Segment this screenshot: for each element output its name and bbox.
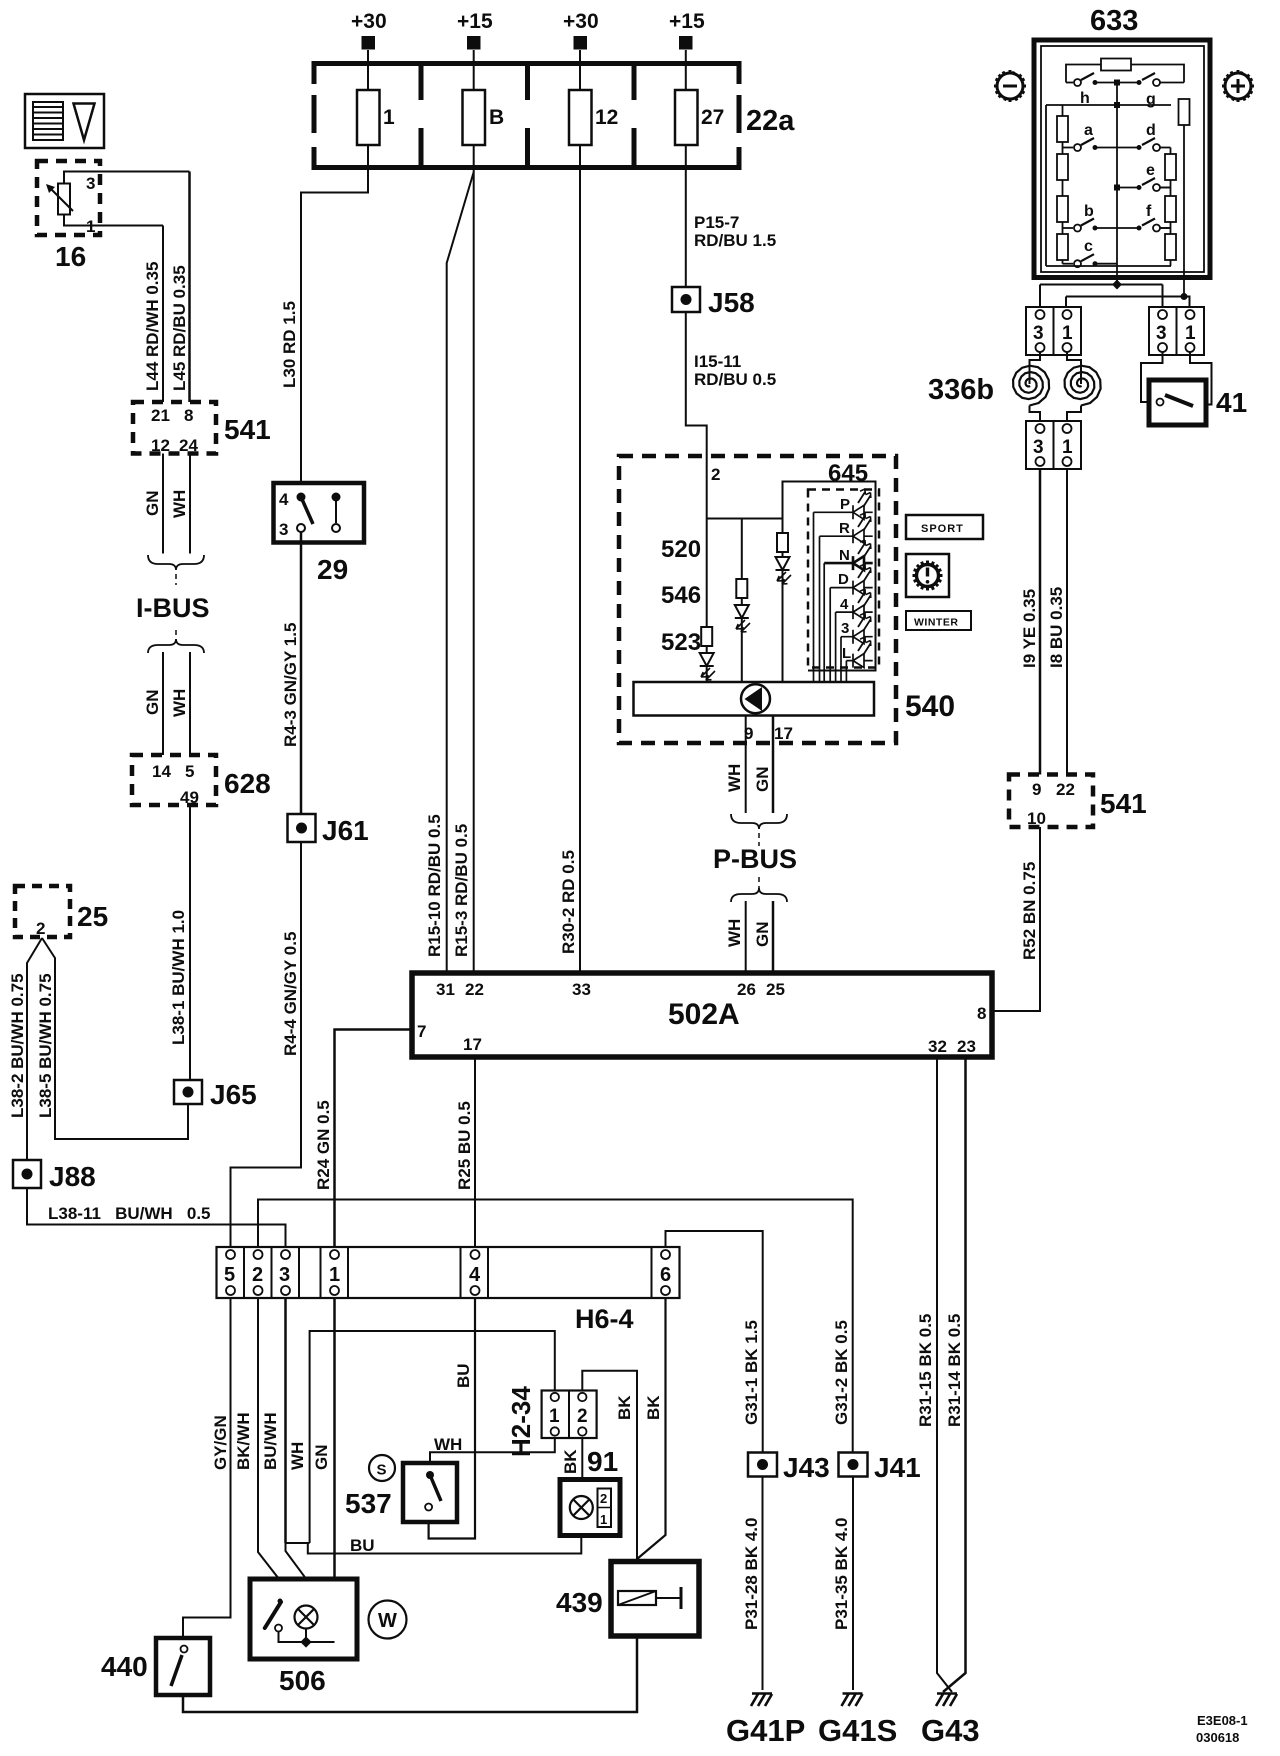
switch 440 — [156, 1638, 210, 1695]
svg-text:5: 5 — [224, 1264, 235, 1286]
svg-text:17: 17 — [774, 724, 793, 743]
bottom link wire 440-439 — [183, 1636, 637, 1712]
svg-text:J58: J58 — [708, 287, 755, 318]
svg-text:3: 3 — [279, 1264, 290, 1286]
svg-text:c: c — [1084, 238, 1093, 255]
svg-text:26: 26 — [737, 980, 756, 999]
svg-text:541: 541 — [224, 414, 271, 445]
wire WH from H2-34 pin1 down — [310, 1331, 555, 1543]
P-BUS brace top — [731, 814, 787, 829]
svg-text:+30: +30 — [563, 10, 599, 33]
wire R52 BN 0.75 to 502A pin8 — [992, 827, 1040, 1011]
svg-text:R52 BN 0.75: R52 BN 0.75 — [1020, 862, 1039, 960]
fuse 12 — [569, 90, 592, 145]
MORE SECTIONS INSERTED BELOW — [928, 5, 1254, 1011]
svg-text:WH: WH — [170, 490, 189, 518]
svg-text:P31-28 BK 4.0: P31-28 BK 4.0 — [742, 1518, 761, 1630]
left chain resistors — [1062, 105, 1064, 116]
svg-text:9: 9 — [1032, 780, 1041, 799]
switch e — [1117, 187, 1139, 189]
svg-text:7: 7 — [417, 1022, 426, 1041]
svg-text:1: 1 — [1062, 437, 1073, 458]
wire from 16 pin1 to L44 — [64, 215, 163, 226]
W circle — [369, 1601, 407, 1639]
fuse B — [463, 90, 486, 145]
svg-text:17: 17 — [463, 1035, 482, 1054]
svg-text:1: 1 — [600, 1512, 607, 1527]
ground G41S — [842, 1694, 863, 1707]
P-BUS brace bottom — [758, 877, 760, 889]
svg-text:f: f — [1146, 203, 1152, 220]
svg-text:J88: J88 — [49, 1161, 96, 1192]
display housing solid box — [783, 482, 876, 671]
svg-text:GN: GN — [143, 690, 162, 716]
connector 541 left (dashed) — [133, 402, 216, 454]
LED chain 546: led — [735, 598, 750, 682]
svg-text:I9 YE 0.35: I9 YE 0.35 — [1020, 589, 1039, 668]
svg-text:e: e — [1146, 162, 1155, 179]
relay 439 — [611, 1562, 699, 1637]
wire P31-35 BK 4.0 J41 to G41S — [852, 1477, 854, 1691]
svg-text:S: S — [377, 1462, 387, 1479]
svg-text:523: 523 — [661, 629, 701, 656]
svg-text:41: 41 — [1216, 387, 1247, 418]
junction J41 — [839, 1453, 868, 1477]
svg-text:R30-2 RD 0.5: R30-2 RD 0.5 — [559, 850, 578, 954]
svg-text:4: 4 — [469, 1264, 481, 1286]
svg-text:1: 1 — [1062, 323, 1073, 344]
selector illumination unit 540 (dashed box) — [619, 456, 896, 743]
svg-text:537: 537 — [345, 1488, 392, 1519]
svg-text:BK: BK — [561, 1449, 580, 1474]
internal feed rail — [707, 518, 783, 520]
S circle — [369, 1455, 395, 1481]
svg-text:R4-3 GN/GY 1.5: R4-3 GN/GY 1.5 — [281, 623, 300, 747]
wire BK/WH H6-4 pin2 to 506 switch — [258, 1298, 279, 1602]
svg-text:25: 25 — [77, 901, 108, 932]
connector 541 right (dashed) — [1009, 775, 1093, 828]
svg-text:BU/WH: BU/WH — [261, 1412, 280, 1470]
svg-text:628: 628 — [224, 768, 271, 799]
LED chain 546: resistor — [741, 519, 743, 580]
svg-text:L: L — [842, 645, 851, 662]
panel lamp unit 506 — [250, 1579, 357, 1659]
svg-text:3: 3 — [279, 520, 288, 539]
fuse 1 — [357, 90, 380, 145]
svg-text:502A: 502A — [668, 998, 740, 1031]
wire BK H2-34 pin2 to 91 — [581, 1438, 583, 1480]
wire from 16 pin3 to L45 — [64, 172, 190, 184]
wire L45 RD/BU 0.35 — [188, 172, 191, 403]
svg-text:J41: J41 — [874, 1452, 921, 1483]
svg-text:22a: 22a — [746, 105, 795, 137]
svg-text:4: 4 — [279, 490, 289, 509]
wire GN from 540 pin17 — [772, 716, 775, 814]
wire GN H6-4 pin1 to 506 — [333, 1298, 336, 1642]
lamp driver bar in 540 — [634, 682, 875, 716]
svg-text:R31-14 BK 0.5: R31-14 BK 0.5 — [945, 1314, 964, 1427]
wire R15-10 fuseB diagonal down to 502A pin31 — [447, 172, 474, 973]
svg-text:R24 GN 0.5: R24 GN 0.5 — [314, 1100, 333, 1190]
svg-text:GN: GN — [753, 767, 772, 793]
switch d — [1117, 147, 1139, 149]
svg-text:12: 12 — [595, 106, 618, 129]
svg-text:520: 520 — [661, 536, 701, 563]
sensor 16 (dashed box with rheostat) — [37, 161, 100, 235]
svg-text:GN: GN — [753, 922, 772, 948]
fuse 27 — [675, 90, 698, 145]
svg-text:L38-11 BU/WH 0.5: L38-11 BU/WH 0.5 — [48, 1204, 211, 1223]
junction J61 — [288, 814, 316, 842]
svg-text:b: b — [1084, 203, 1094, 220]
svg-text:6: 6 — [660, 1264, 671, 1286]
plus gear icon — [1222, 70, 1254, 102]
svg-text:3: 3 — [841, 620, 849, 637]
svg-text:R4-4 GN/GY 0.5: R4-4 GN/GY 0.5 — [281, 932, 300, 1056]
wire I15-11 J58 to 540 pin2 — [686, 312, 707, 519]
inner resistor network box — [1046, 105, 1171, 266]
connector H2-34 — [542, 1391, 597, 1439]
svg-text:I8 BU 0.35: I8 BU 0.35 — [1047, 587, 1066, 668]
633 internals — [1046, 59, 1190, 297]
wire P31-28 BK 4.0 J43 to G41P — [762, 1477, 764, 1691]
svg-text:8: 8 — [184, 406, 193, 425]
junction J65 — [174, 1080, 202, 1104]
wires 633 to connectors — [1040, 278, 1163, 308]
svg-text:G41P: G41P — [726, 1713, 805, 1748]
junction J58 — [672, 287, 700, 312]
svg-text:L38-1 BU/WH 1.0: L38-1 BU/WH 1.0 — [169, 910, 188, 1045]
svg-text:H6-4: H6-4 — [575, 1304, 634, 1334]
light switch unit 633 outer box — [1034, 40, 1210, 278]
svg-text:1: 1 — [1185, 323, 1196, 344]
wire GN from 541-12 — [162, 454, 164, 554]
wire BK H6-4 pin6 to 439 — [637, 1298, 666, 1562]
svg-text:W: W — [378, 1610, 397, 1632]
wire BU bus to 91 lamp — [308, 1519, 582, 1554]
switch 29 — [274, 483, 365, 543]
svg-text:336b: 336b — [928, 374, 994, 406]
wire L30 RD 1.5 fuse1 to switch 29 — [301, 168, 368, 484]
wire R4-3 GN/GY 1.5 switch29 to J61 — [300, 532, 303, 814]
wire GY/GN H6-4 pin5 to 440 — [183, 1298, 231, 1638]
wire R24 GN 0.5 502A pin7 to H6-4 pin1 — [335, 1030, 413, 1248]
wire R31-14 BK 0.5 502A pin23 to G43 — [943, 1057, 966, 1692]
svg-text:R31-15 BK 0.5: R31-15 BK 0.5 — [916, 1314, 935, 1427]
svg-text:1: 1 — [549, 1406, 560, 1427]
svg-text:22: 22 — [465, 980, 484, 999]
wire BK H2-34 pin2 to 439 — [582, 1371, 637, 1562]
svg-text:32: 32 — [928, 1037, 947, 1056]
svg-text:8: 8 — [977, 1004, 986, 1023]
svg-text:440: 440 — [101, 1651, 148, 1682]
svg-text:1: 1 — [329, 1264, 340, 1286]
mirror switch 537 — [403, 1463, 457, 1522]
svg-text:RD/BU 1.5: RD/BU 1.5 — [694, 231, 776, 250]
svg-text:29: 29 — [317, 554, 348, 585]
svg-text:R15-3 RD/BU 0.5: R15-3 RD/BU 0.5 — [452, 824, 471, 957]
svg-text:G41S: G41S — [818, 1713, 897, 1748]
switch g — [1137, 80, 1142, 85]
svg-text:49: 49 — [180, 788, 199, 807]
svg-text:WH: WH — [434, 1435, 462, 1454]
junction J88 — [13, 1160, 41, 1188]
svg-text:E3E08-1: E3E08-1 — [1197, 1713, 1248, 1728]
svg-text:GN: GN — [143, 491, 162, 517]
svg-text:BK/WH: BK/WH — [234, 1412, 253, 1470]
svg-text:J43: J43 — [783, 1452, 830, 1483]
svg-text:+15: +15 — [669, 10, 705, 33]
svg-text:3: 3 — [1156, 323, 1167, 344]
connector pair 3/1 upper right — [1149, 307, 1204, 355]
minus gear icon — [994, 70, 1026, 102]
svg-text:21: 21 — [151, 406, 170, 425]
I-BUS brace bottom — [175, 630, 177, 641]
connector 25 (dashed) — [15, 886, 70, 937]
wire L38-11 BU/WH 0.5 from J88 to H6-4 pin3 — [27, 1188, 286, 1247]
svg-text:BK: BK — [615, 1395, 634, 1420]
svg-text:2: 2 — [600, 1491, 607, 1506]
svg-text:R15-10 RD/BU 0.5: R15-10 RD/BU 0.5 — [425, 814, 444, 957]
svg-text:a: a — [1084, 122, 1093, 139]
svg-text:P: P — [840, 496, 850, 513]
svg-text:I-BUS: I-BUS — [136, 593, 210, 623]
svg-text:GY/GN: GY/GN — [211, 1415, 230, 1470]
svg-text:1: 1 — [383, 106, 395, 129]
top rail with resistor — [1066, 65, 1101, 83]
svg-text:030618: 030618 — [1196, 1730, 1239, 1745]
svg-text:10: 10 — [1027, 809, 1046, 828]
svg-text:2: 2 — [252, 1264, 263, 1286]
svg-text:B: B — [489, 106, 504, 129]
svg-text:d: d — [1146, 122, 1156, 139]
svg-text:P-BUS: P-BUS — [713, 844, 797, 874]
svg-text:31: 31 — [436, 980, 455, 999]
wire from J65 to 25 pin2 — [42, 938, 188, 1139]
display 645 dashed box — [808, 490, 879, 668]
wire I8 BU 0.35 — [1066, 469, 1068, 775]
switch h — [1066, 82, 1073, 84]
svg-text:R25 BU 0.5: R25 BU 0.5 — [455, 1101, 474, 1190]
gear LEDs P R N D 4 3 L — [814, 489, 873, 682]
wire H6-4 pin2 top to J41 — [258, 1200, 853, 1453]
svg-text:33: 33 — [572, 980, 591, 999]
svg-text:WH: WH — [725, 764, 744, 792]
wire R31-15 BK 0.5 502A pin32 to G43 — [937, 1057, 952, 1692]
svg-text:GN: GN — [312, 1445, 331, 1471]
svg-text:P15-7: P15-7 — [694, 213, 739, 232]
coil 336b right (spiral) — [1065, 352, 1101, 421]
svg-text:SPORT: SPORT — [921, 523, 964, 535]
svg-text:H2-34: H2-34 — [506, 1386, 536, 1457]
wire WH to 502A pin26 — [745, 901, 747, 973]
svg-text:506: 506 — [279, 1665, 326, 1696]
svg-text:2: 2 — [577, 1406, 588, 1427]
svg-text:J61: J61 — [322, 815, 369, 846]
wire GN to 628 — [162, 652, 164, 755]
svg-text:P31-35 BK 4.0: P31-35 BK 4.0 — [832, 1518, 851, 1630]
svg-text:546: 546 — [661, 582, 701, 609]
svg-text:G31-2 BK 0.5: G31-2 BK 0.5 — [832, 1320, 851, 1425]
svg-text:J65: J65 — [210, 1079, 257, 1110]
svg-text:L38-5 BU/WH 0.75: L38-5 BU/WH 0.75 — [36, 973, 55, 1118]
SPORT indicator box — [906, 515, 983, 539]
I-BUS brace top — [148, 555, 204, 570]
svg-text:23: 23 — [957, 1037, 976, 1056]
svg-text:16: 16 — [55, 241, 86, 272]
svg-text:12: 12 — [151, 436, 170, 455]
svg-text:BK: BK — [644, 1395, 663, 1420]
gear warning icon box — [906, 554, 949, 597]
svg-text:D: D — [838, 571, 849, 588]
connector 628 (dashed) — [132, 755, 216, 805]
svg-text:4: 4 — [840, 596, 849, 613]
connector strip H6-4 — [217, 1247, 680, 1298]
svg-text:3: 3 — [86, 174, 95, 193]
svg-text:L38-2 BU/WH 0.75: L38-2 BU/WH 0.75 — [8, 973, 27, 1118]
svg-text:BU: BU — [350, 1536, 375, 1555]
wire GN to 502A pin25 — [772, 901, 775, 973]
coil 336b left (spiral) — [1013, 352, 1049, 421]
wire WH to 628 — [189, 652, 191, 755]
WINTER indicator box — [906, 611, 971, 630]
svg-text:2: 2 — [711, 465, 720, 484]
svg-text:R: R — [839, 520, 850, 537]
svg-text:L44 RD/WH 0.35: L44 RD/WH 0.35 — [143, 262, 162, 391]
wire L44 RD/WH 0.35 — [162, 226, 164, 403]
wire R30-2 fuse12 to 502A pin33 — [579, 168, 581, 974]
fuse box 22a — [314, 64, 739, 168]
switch a — [1063, 147, 1074, 149]
ECU 502A — [412, 973, 992, 1057]
svg-text:G31-1 BK 1.5: G31-1 BK 1.5 — [742, 1320, 761, 1425]
svg-text:BU: BU — [454, 1363, 473, 1388]
wire H6-4 pin6 top to J43 — [666, 1231, 763, 1453]
svg-text:22: 22 — [1056, 780, 1075, 799]
svg-text:I15-11: I15-11 — [694, 352, 741, 371]
wire I9 YE 0.35 — [1039, 469, 1042, 775]
wire WH 537 to H2-34 pin1 — [430, 1438, 555, 1464]
wire R15-3 fuseB straight down to 502A pin22 — [473, 168, 475, 974]
svg-text:3: 3 — [1033, 437, 1044, 458]
svg-text:RD/BU 0.5: RD/BU 0.5 — [694, 370, 776, 389]
ground G41P — [751, 1694, 772, 1707]
svg-text:L45 RD/BU 0.35: L45 RD/BU 0.35 — [170, 265, 189, 391]
switch c — [1063, 263, 1074, 265]
ground G43 — [936, 1694, 957, 1707]
instrument icon box — [25, 94, 104, 148]
junction J43 — [748, 1453, 777, 1477]
MORE SECTIONS INSERTED BELOW — [101, 1200, 1248, 1749]
LED chain 520: led — [776, 552, 792, 682]
lamp 91 — [560, 1480, 620, 1536]
svg-text:N: N — [839, 547, 850, 564]
svg-text:L30 RD 1.5: L30 RD 1.5 — [280, 301, 299, 388]
right dropper resistor — [1179, 99, 1190, 125]
svg-text:WH: WH — [288, 1442, 307, 1470]
svg-text:27: 27 — [701, 106, 724, 129]
wire R4-4 GN/GY 0.5 J61 to H6-4 pin5 — [231, 842, 302, 1247]
connector pair 3/1 upper left — [1026, 307, 1081, 355]
svg-text:541: 541 — [1100, 788, 1147, 819]
right chain resistors — [1170, 148, 1172, 155]
wire P15-7 fuse27 to J58 — [685, 168, 687, 288]
svg-text:645: 645 — [828, 460, 868, 487]
svg-text:2: 2 — [36, 919, 45, 938]
svg-text:WH: WH — [725, 919, 744, 947]
LED chain 523: led — [700, 646, 715, 682]
MORE SECTIONS INSERTED BELOW — [619, 456, 983, 973]
LED chain 520: resistor — [782, 519, 784, 534]
MORE SECTIONS INSERTED BELOW — [231, 10, 993, 1692]
wire WH from 541-24 — [189, 454, 191, 554]
svg-text:WINTER: WINTER — [914, 617, 958, 629]
svg-text:24: 24 — [179, 436, 198, 455]
switch f — [1117, 227, 1139, 229]
svg-text:+15: +15 — [457, 10, 493, 33]
wire L38-2 from 25 pin2 to J88 — [27, 938, 42, 1160]
LED chain 523: resistor — [706, 519, 708, 628]
junction WH/BUWH to 506 lamp — [286, 1543, 310, 1606]
wire BU/WH H6-4 pin3 down — [284, 1298, 287, 1543]
svg-text:G43: G43 — [921, 1713, 980, 1748]
svg-text:540: 540 — [905, 690, 955, 723]
switch 41 — [1141, 352, 1212, 425]
wire R25 BU 0.5 502A pin17 to H6-4 pin4 — [474, 1057, 476, 1247]
connector pair 3/1 lower — [1026, 421, 1081, 469]
svg-text:WH: WH — [170, 689, 189, 717]
svg-text:3: 3 — [1033, 323, 1044, 344]
wire L38-1 BU/WH 1.0 — [189, 805, 191, 1080]
wire WH from 540 pin9 — [745, 716, 747, 814]
center bus of 633 — [1116, 83, 1118, 285]
svg-text:14: 14 — [152, 762, 171, 781]
switch b — [1063, 227, 1074, 229]
svg-text:439: 439 — [556, 1587, 603, 1618]
wire BU H6-4 pin4 to 537 — [429, 1298, 475, 1539]
svg-text:5: 5 — [185, 762, 194, 781]
svg-text:91: 91 — [587, 1446, 618, 1477]
svg-text:633: 633 — [1090, 5, 1138, 37]
svg-text:+30: +30 — [351, 10, 387, 33]
svg-text:25: 25 — [766, 980, 785, 999]
